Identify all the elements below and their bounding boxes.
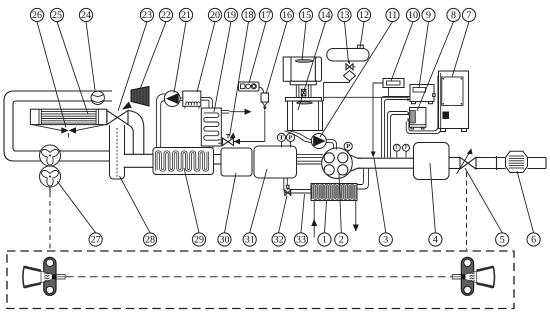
- svg-text:16: 16: [282, 10, 292, 21]
- svg-text:17: 17: [261, 10, 271, 21]
- svg-text:13: 13: [340, 10, 350, 21]
- svg-text:28: 28: [145, 235, 155, 246]
- svg-text:5: 5: [500, 235, 505, 246]
- svg-text:21: 21: [181, 10, 191, 21]
- svg-text:22: 22: [161, 10, 171, 21]
- svg-text:3: 3: [383, 235, 388, 246]
- svg-text:6: 6: [531, 235, 536, 246]
- svg-text:33: 33: [296, 235, 306, 246]
- svg-text:29: 29: [194, 235, 204, 246]
- svg-text:12: 12: [359, 10, 369, 21]
- svg-text:8: 8: [451, 10, 456, 21]
- svg-text:4: 4: [433, 235, 438, 246]
- svg-text:14: 14: [321, 10, 331, 21]
- svg-text:25: 25: [52, 10, 62, 21]
- svg-text:9: 9: [426, 10, 431, 21]
- svg-text:27: 27: [91, 235, 101, 246]
- svg-text:2: 2: [339, 235, 344, 246]
- svg-text:19: 19: [226, 10, 236, 21]
- svg-text:T: T: [279, 134, 284, 141]
- svg-text:T: T: [395, 145, 399, 151]
- svg-text:P: P: [289, 134, 293, 141]
- svg-text:30: 30: [220, 235, 230, 246]
- svg-text:P: P: [404, 145, 407, 151]
- svg-text:26: 26: [32, 10, 42, 21]
- svg-text:1: 1: [322, 235, 327, 246]
- svg-text:15: 15: [301, 10, 311, 21]
- svg-text:24: 24: [81, 10, 91, 21]
- svg-text:7: 7: [467, 10, 472, 21]
- svg-text:31: 31: [245, 235, 255, 246]
- svg-text:11: 11: [388, 10, 398, 21]
- svg-text:10: 10: [408, 10, 418, 21]
- svg-text:32: 32: [274, 235, 284, 246]
- svg-text:20: 20: [210, 10, 220, 21]
- svg-text:18: 18: [244, 10, 254, 21]
- svg-text:23: 23: [142, 10, 152, 21]
- svg-text:P: P: [346, 143, 350, 150]
